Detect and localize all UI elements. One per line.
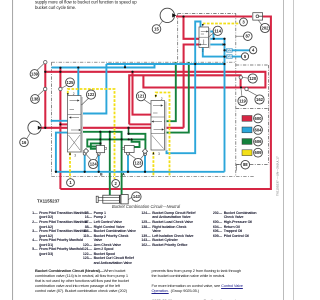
pump 1 label	[152, 25, 161, 34]
bucket dump relief valve 124 assembly	[83, 146, 106, 154]
left control valve label 87	[244, 32, 253, 41]
wire: comb valve pilot to port 3	[203, 23, 240, 25]
bucket curl relief label 123	[133, 158, 142, 167]
wire: arm2 spool bottom pilot	[152, 152, 154, 176]
oil legend box (dash-dot)	[236, 108, 269, 164]
left control valve boundary (dash-dot box)	[52, 14, 255, 177]
bucket priority orifice label 162	[255, 95, 264, 104]
wire: outer return riser x224.5	[224, 39, 226, 172]
wire: arm2 spool right port B green riser	[165, 62, 189, 132]
page right margin rule 1	[283, 0, 285, 300]
node port 2	[112, 180, 120, 188]
page right margin rule 2	[293, 0, 295, 300]
wire: DR6 port line	[225, 49, 250, 51]
wire: bucket combination valve port B down to pump1 rail	[184, 45, 199, 128]
bucket cylinder label 143	[132, 192, 141, 201]
body text right column	[152, 268, 298, 293]
wire: feed into arm2 spool left port	[129, 123, 151, 125]
wire: arm2 spool top pilot line	[156, 93, 170, 177]
wire: return header jog at x125	[124, 64, 126, 68]
wire: bucket work gallery to relief assemblies	[87, 134, 145, 147]
wire: second feed to arm2 spool	[133, 72, 152, 115]
wire: return drop to bucket spool right port	[81, 64, 106, 114]
wire: right assembly hook	[132, 139, 140, 147]
wire: inner green hook left assembly	[91, 143, 101, 148]
wire: comb valve right port stubs	[209, 32, 214, 39]
wire: comb valve bottom to DR2 port	[203, 48, 242, 57]
pump 2 label	[20, 138, 29, 147]
wire: pilot port riser (isolation check line)	[44, 64, 46, 128]
wire: upper return header	[106, 63, 224, 65]
wire: pump 1 supply rail across valves	[41, 127, 183, 129]
node port 5	[241, 53, 248, 60]
wire: bucket spool top return drop	[77, 68, 79, 96]
valve 114 pilot arrow	[202, 24, 204, 27]
right control valve boundary (dash-dot)	[236, 14, 269, 177]
wire: main tank gallery bottom	[56, 171, 225, 173]
pump 1 (bottom left)	[28, 121, 42, 134]
valve 121 pilot arrows	[155, 95, 157, 98]
wire: pump 2 supply top rail and outer loop	[176, 15, 252, 17]
bucket curl relief valve 123 assembly	[122, 146, 147, 154]
wire: pump 2 branch to bucket combination valve port A	[184, 16, 200, 39]
wire: inner return riser from comb valve top	[167, 22, 201, 154]
wire: green drop to right diamond	[144, 139, 146, 149]
wire: relief box top stub left	[100, 132, 102, 146]
page left margin rule	[12, 0, 14, 300]
legend swatch high-pressure oil	[242, 116, 252, 122]
wire: header y75.3 to arm check loop	[129, 75, 240, 124]
wire: bucket spool left port to tank gallery	[56, 133, 68, 172]
bucket load check valve label 125	[66, 78, 75, 87]
legend 600 high pressure	[254, 114, 263, 123]
bucket combination check valve 202	[253, 13, 263, 20]
valve 121 arm 2 spool body	[151, 101, 167, 152]
right control valve label 88	[241, 160, 250, 169]
bucket combination valve label 114	[213, 26, 222, 35]
legend 604 return	[254, 125, 263, 134]
legend swatch pilot oil	[242, 150, 252, 156]
legend swatch return oil	[242, 127, 252, 133]
arm check valve label 120	[248, 74, 257, 83]
wire: cylinder head end drop	[109, 132, 111, 195]
node port 4	[250, 47, 257, 54]
wire: bucket spool bottom pilot to port 1	[69, 153, 71, 178]
arm 2 spool label 121	[136, 92, 145, 101]
legend 609 pilot	[254, 148, 263, 157]
wire: long supply header y71.8 with right loop	[45, 72, 265, 88]
wire: bucket spool work port to cylinder rod end	[81, 132, 122, 195]
bucket dump relief label 124	[89, 159, 98, 168]
body text left column	[35, 268, 160, 293]
port label DR2	[227, 55, 233, 59]
right isolation check label 138	[31, 95, 40, 104]
bucket combination check valve label 202	[260, 23, 269, 32]
valve 114 bucket combination valve body	[199, 27, 211, 49]
wire: arm2 spool right port A green riser	[165, 62, 176, 121]
callout leader lines	[27, 21, 262, 171]
wire: feed to bucket spool left port	[60, 123, 67, 125]
valve 122 bucket spool body	[68, 96, 84, 154]
footer clipped text	[152, 298, 246, 300]
arrow on return stub	[223, 43, 226, 45]
legend 606 trapped	[254, 137, 263, 146]
valve 122 pilot arrows	[67, 93, 69, 96]
wire: junction stub to pump1 rail	[128, 128, 130, 134]
bucket priority check valve label 119	[238, 96, 247, 105]
node port 1	[67, 179, 75, 187]
pump 2 (top)	[160, 8, 176, 22]
port label DR6	[227, 48, 233, 52]
left isolation check label 139	[30, 70, 39, 79]
wire: upper return header west segment	[52, 64, 155, 68]
legend swatch trapped oil	[242, 139, 252, 145]
node port 3	[240, 18, 248, 26]
wire: relief assembly drains	[84, 154, 86, 172]
wire: bucket spool left return	[51, 120, 68, 122]
bucket spool label 122	[86, 90, 95, 99]
wire: pilot line to bucket spool cap and port 2	[68, 89, 115, 179]
open port circles	[44, 61, 47, 64]
bucket cylinder 143	[96, 195, 132, 204]
wire: left return riser x60.4	[59, 68, 61, 189]
